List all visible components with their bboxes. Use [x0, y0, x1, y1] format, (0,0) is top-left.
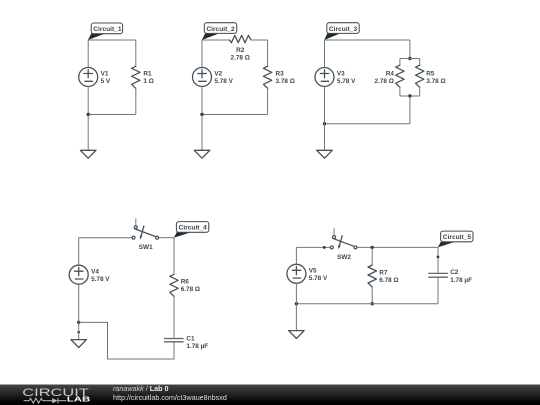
wire left lower C3 [324, 87, 326, 124]
svg-text:ranawakk / Lab 0: ranawakk / Lab 0 [113, 384, 169, 393]
footer background [0, 385, 540, 405]
wire right lower C3 [409, 96, 411, 124]
svg-text:6.78 Ω: 6.78 Ω [181, 286, 200, 293]
wire right upper C4 [173, 238, 175, 275]
resistor R5 [416, 65, 424, 87]
logo underline with resistor and diode [24, 398, 67, 403]
node before switch C5 [323, 246, 326, 249]
wire to ground C3 [324, 124, 326, 151]
callout box Circuit_2 [204, 23, 236, 34]
switch SW2 [330, 228, 357, 249]
voltage source V4 [69, 265, 88, 284]
svg-text:R7: R7 [379, 270, 388, 277]
svg-text:Circuit_5: Circuit_5 [443, 234, 472, 241]
svg-text:1.78 µF: 1.78 µF [450, 277, 472, 284]
voltage source V5 [287, 264, 306, 283]
svg-text:C2: C2 [450, 269, 459, 276]
svg-text:2.78 Ω: 2.78 Ω [375, 78, 394, 85]
callout box Circuit_4 [176, 222, 208, 233]
callout pointer C4 [174, 232, 191, 238]
wire left upper C3 [324, 40, 326, 68]
svg-text:R6: R6 [181, 278, 190, 285]
resistor R4 [396, 65, 404, 87]
ground C5 [289, 331, 305, 339]
wire left upper C1 [87, 40, 89, 68]
wire right upper C1 [135, 40, 137, 66]
wire top-right C5 [357, 246, 438, 248]
svg-text:C1: C1 [186, 335, 195, 342]
svg-text:3.78 Ω: 3.78 Ω [426, 78, 445, 85]
wire left lower C2 [201, 87, 203, 115]
right branch stub lower [419, 87, 421, 96]
node small C5 [437, 256, 440, 259]
node junction C5 left [295, 302, 298, 305]
switch SW1 [132, 218, 159, 239]
node junction C4 left [77, 321, 80, 324]
node bottom of parallel C3 [408, 94, 411, 97]
svg-text:Circuit_2: Circuit_2 [206, 26, 235, 33]
wire top-left C5 [296, 246, 330, 248]
wire to ground C1 [87, 115, 89, 151]
node junction C2 [200, 113, 203, 116]
voltage source V1 [79, 68, 98, 87]
node junction C1 [87, 113, 90, 116]
wire to ground C2 [201, 115, 203, 151]
svg-text:V2: V2 [214, 71, 222, 78]
wire bottom C3 [325, 123, 410, 125]
callout pointer C5 [438, 242, 454, 248]
wire left lower C5 [295, 283, 297, 303]
wire right lower C1 [135, 88, 137, 114]
resistor R7 [368, 265, 376, 287]
logo diode triangle [52, 398, 57, 403]
wire right upper C2 [267, 40, 269, 66]
wire top-right C2 [251, 39, 268, 41]
svg-text:R5: R5 [426, 70, 435, 77]
ground C1 [80, 150, 96, 158]
wire left lower C1 [87, 87, 89, 115]
callout pointer C1 [88, 33, 105, 40]
svg-text:2.78 Ω: 2.78 Ω [231, 55, 250, 62]
capacitor C2 [428, 273, 448, 277]
callout box Circuit_3 [327, 23, 359, 34]
wire to ground C5 [295, 304, 297, 331]
svg-text:5.78 V: 5.78 V [337, 78, 356, 85]
wire top-left C2 [202, 39, 229, 41]
wire left upper C5 [295, 247, 297, 264]
wire top-right C4 [159, 237, 174, 239]
ground C2 [194, 150, 210, 158]
ground C3 [317, 150, 333, 158]
wire right upper C5 [437, 247, 439, 273]
svg-text:1.78 µF: 1.78 µF [186, 343, 208, 350]
wire top C3 [325, 39, 410, 41]
node R7 bottom C5 [371, 302, 374, 305]
parallel bottom bar [400, 95, 420, 97]
wire bottom C5 [296, 303, 438, 305]
left branch stub upper [399, 59, 401, 66]
wire R7 lower stub [371, 287, 373, 304]
wire to ground C4 [78, 322, 80, 339]
svg-text:Circuit_3: Circuit_3 [329, 26, 358, 33]
resistor R2 [229, 35, 251, 42]
wire right upper C3 [409, 40, 411, 59]
wire cap to resistor C4 [173, 296, 175, 338]
wire left upper C2 [201, 40, 203, 68]
left branch stub lower [399, 87, 401, 96]
voltage source V2 [193, 68, 212, 87]
parallel top bar [400, 58, 420, 60]
svg-text:3.78 Ω: 3.78 Ω [276, 78, 295, 85]
node R7 top C5 [371, 246, 374, 249]
svg-text:V3: V3 [337, 71, 345, 78]
svg-text:R3: R3 [276, 70, 285, 77]
wire bottom C2 [202, 114, 268, 116]
svg-text:5.78 V: 5.78 V [214, 78, 233, 85]
capacitor C1 [164, 339, 184, 342]
wire right lower C2 [267, 88, 269, 114]
svg-text:1 Ω: 1 Ω [143, 78, 153, 85]
svg-text:V1: V1 [101, 71, 109, 78]
svg-text:R1: R1 [143, 70, 152, 77]
svg-text:SW2: SW2 [337, 254, 351, 261]
resistor R3 [263, 66, 271, 88]
callout pointer C2 [202, 33, 219, 40]
svg-text:5 V: 5 V [101, 78, 111, 85]
wire left lower C4 [78, 284, 80, 322]
right branch stub upper [419, 59, 421, 66]
wire bottom jog C4 [79, 322, 174, 359]
wire right lower C5 [437, 277, 439, 304]
callout pointer C3 [324, 33, 341, 41]
svg-text:6.78 Ω: 6.78 Ω [379, 277, 398, 284]
svg-text:V5: V5 [309, 267, 317, 274]
node top of parallel C3 [408, 57, 411, 60]
svg-text:SW1: SW1 [139, 244, 153, 251]
wire left upper C4 [78, 238, 80, 266]
node small C4 [77, 331, 80, 334]
ground C4 [71, 340, 87, 348]
svg-text:5.78 V: 5.78 V [309, 275, 328, 282]
svg-text:V4: V4 [91, 268, 99, 275]
resistor R6 [170, 274, 178, 296]
node junction C3 [323, 122, 326, 125]
callout box Circuit_5 [441, 231, 473, 242]
wire top C1 [88, 39, 136, 41]
resistor R1 [132, 66, 140, 88]
svg-text:5.78 V: 5.78 V [91, 276, 110, 283]
svg-text:LAB: LAB [67, 395, 91, 404]
wire top-left C4 [79, 237, 132, 239]
svg-text:R4: R4 [386, 70, 395, 77]
callout box Circuit_1 [91, 23, 122, 34]
voltage source V3 [315, 68, 334, 87]
wire bottom C1 [88, 114, 136, 116]
svg-text:http://circuitlab.com/ct3waue8: http://circuitlab.com/ct3waue8nbsxd [113, 393, 227, 402]
svg-text:Circuit_1: Circuit_1 [93, 26, 122, 33]
wire R7 upper stub [371, 247, 373, 265]
svg-text:R2: R2 [236, 47, 245, 54]
svg-text:Circuit_4: Circuit_4 [179, 225, 208, 232]
